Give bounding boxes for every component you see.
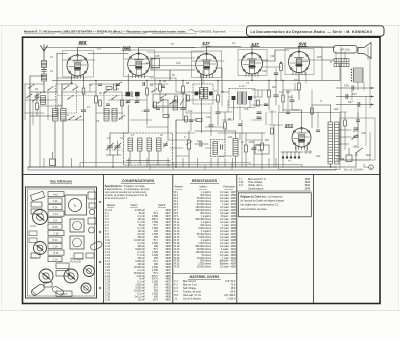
- cap C28: [98, 83, 102, 85]
- svg-text:Self: Self: [228, 136, 232, 139]
- tube V5 shield: [285, 49, 314, 75]
- dashed box frame-antenna: [56, 84, 77, 113]
- svg-text:C14: C14: [206, 116, 211, 119]
- heater row wire: [281, 151, 303, 153]
- tube V5 6V6: [289, 52, 310, 73]
- socket V6: [81, 283, 91, 293]
- resistor R16: [106, 87, 112, 90]
- cap C27: [345, 94, 347, 99]
- switch S1: [68, 119, 69, 120]
- svg-text:Valeur: Valeur: [130, 204, 137, 207]
- header faint marks: [230, 31, 244, 33]
- top small rect row: [30, 191, 44, 201]
- wire through V1: [63, 59, 95, 61]
- wire v 366: [365, 97, 367, 147]
- pilot lamp G: [369, 165, 374, 170]
- T1 core lines: [130, 92, 132, 97]
- T1 trimmer C6: [135, 100, 139, 102]
- cap C34: [264, 103, 268, 105]
- wire mesh vertical segments: [25, 47, 368, 167]
- svg-text:R 20: R 20: [53, 227, 59, 229]
- terminal wire 1: [336, 87, 374, 89]
- cap C20: [274, 94, 279, 96]
- svg-text:C10: C10: [176, 62, 181, 65]
- terminal dot 3: [371, 104, 373, 106]
- svg-text:6E8: 6E8: [79, 40, 87, 45]
- wire top V4-V5: [251, 47, 253, 54]
- tube V4 6J7: [242, 53, 263, 74]
- choke cap C18: [220, 145, 222, 150]
- wire B+ bus y80: [52, 80, 340, 82]
- electrolytic C44: [346, 155, 352, 162]
- IF can square 1: [70, 219, 84, 232]
- vertical divider condensateurs/resistances: [172, 175, 174, 304]
- right column rects: [88, 192, 96, 199]
- component value labels: [35, 55, 371, 158]
- svg-text:CV: CV: [107, 137, 111, 140]
- wire v 358: [357, 105, 359, 149]
- vertical divider right empty column: [313, 175, 315, 304]
- cap C15: [216, 111, 221, 113]
- bottom bus vertical links: [28, 163, 336, 171]
- wire T3 down: [233, 100, 235, 120]
- svg-text:C 14: C 14: [53, 259, 59, 261]
- switch S9: [111, 98, 112, 99]
- switch S10: [151, 91, 152, 92]
- svg-text:G: G: [370, 167, 372, 170]
- heater row marks: [282, 152, 300, 159]
- cap C12: [181, 107, 186, 109]
- IF transformer T2 box: [193, 84, 213, 104]
- svg-text:SECT.: SECT.: [60, 292, 68, 296]
- chassis socket slashes: [37, 214, 44, 220]
- svg-text:110 v.: 110 v.: [353, 131, 359, 133]
- svg-text:25 mF: 25 mF: [138, 299, 145, 302]
- coupling cap C17: [199, 142, 201, 147]
- svg-text:C 22: C 22: [53, 201, 59, 203]
- small rect bottom strip: [56, 263, 69, 269]
- resistor R7: [217, 95, 220, 102]
- resistances header dashes: [175, 188, 182, 190]
- vertical divider chassis/condensateurs: [103, 175, 105, 304]
- wire y120: [176, 119, 197, 121]
- tube V3 6Q7 shield: [192, 51, 222, 78]
- block coil L6: [138, 138, 143, 151]
- terminal dot 1: [371, 87, 373, 89]
- wire CV bottom: [106, 154, 121, 156]
- wire osc col2 down: [62, 121, 64, 167]
- T2 cap block right: [209, 92, 213, 96]
- switch S16: [157, 102, 158, 103]
- svg-text:C21: C21: [288, 96, 293, 99]
- svg-text:4 m.f.: 4 m.f.: [53, 194, 59, 196]
- svg-text:5Y3: 5Y3: [285, 123, 293, 128]
- coil L9: [173, 100, 178, 110]
- tuning block dashed box: [124, 133, 173, 165]
- wire V5 top to speaker: [298, 47, 300, 52]
- switch S13: [26, 97, 27, 98]
- wire left horizontal y76: [30, 75, 44, 77]
- wire top continuous bus y47.3: [45, 46, 335, 48]
- wire mains h: [336, 166, 356, 168]
- wire grid row left: [57, 53, 67, 55]
- resistor R23: [311, 108, 314, 114]
- socket V3: [39, 269, 53, 283]
- header brace: [189, 30, 199, 33]
- svg-text:de l'accord du Cadre est align: de l'accord du Cadre est alignée chaque: [241, 200, 285, 203]
- svg-text:C18: C18: [262, 70, 267, 73]
- cap C4: [35, 95, 40, 97]
- materiel divers rule: [173, 273, 237, 275]
- wire T3 right down: [249, 100, 251, 108]
- wire W1 top: [235, 131, 237, 139]
- switch S11: [160, 97, 161, 98]
- T3 primary ladder: [238, 92, 242, 104]
- svg-text:C 30: C 30: [105, 299, 111, 302]
- antenna cap C1: [42, 69, 47, 71]
- block trimmer C9: [164, 143, 168, 145]
- svg-text:J.L.: J.L.: [174, 297, 178, 300]
- wire right area y112: [340, 111, 347, 113]
- svg-text:R10: R10: [249, 141, 254, 144]
- resistor R15: [121, 100, 124, 106]
- wire ground bus y167: [28, 166, 336, 168]
- resistor R11: [261, 143, 264, 150]
- resistor R10: [245, 145, 248, 152]
- wire T1 sec down: [136, 96, 138, 99]
- wire right long vertical 2: [369, 56, 371, 108]
- svg-text:Int: Int: [355, 154, 358, 157]
- small box C8 trimmer: [151, 59, 160, 68]
- condensateurs rows: [105, 209, 172, 301]
- scan page edge left: [1, 26, 3, 311]
- power block outline: [279, 113, 340, 170]
- wire V4 to R29: [263, 66, 282, 68]
- switch S8: [103, 92, 104, 93]
- svg-text:2 m.f.: 2 m.f.: [53, 214, 59, 216]
- resistor R21: [257, 100, 260, 106]
- svg-text:C16: C16: [244, 108, 249, 111]
- terminal wire 3: [336, 104, 374, 106]
- svg-text:La Documentation du Dépanneur-: La Documentation du Dépanneur-Radio. — S…: [251, 30, 373, 34]
- condensateurs intro paragraph: [105, 185, 150, 200]
- wire osc col1 down: [54, 121, 56, 167]
- svg-text:C20: C20: [279, 91, 284, 94]
- socket V2: [34, 242, 47, 255]
- wire through V3: [192, 60, 224, 62]
- condensateurs header dashes: [107, 206, 114, 208]
- speaker field coil box AP: [334, 46, 358, 54]
- bottom return bus 2: [150, 164, 302, 166]
- speaker socket strip: [354, 68, 364, 82]
- svg-text:2e m.f.: 2e m.f.: [238, 85, 246, 88]
- wire top bus V1-V2: [88, 53, 128, 55]
- switch S14: [32, 100, 33, 101]
- cap C33: [238, 123, 242, 125]
- T1 trimmer C5: [126, 100, 130, 102]
- wire y116 left: [30, 115, 57, 117]
- svg-text:Repère: Repère: [175, 186, 184, 189]
- component strip stack: [48, 192, 64, 262]
- choke box T4: [211, 140, 226, 157]
- cap C24: [351, 86, 353, 91]
- resistor R27: [163, 115, 169, 118]
- header underline marks: [24, 33, 55, 35]
- resistor R13: [282, 95, 284, 102]
- oscillator coil box L11: [104, 109, 109, 122]
- terminal wire 2: [336, 96, 374, 98]
- wire antenna down: [43, 81, 45, 92]
- svg-text:4952: 4952: [165, 299, 171, 302]
- cap C38: [106, 103, 110, 105]
- tube V6 rectifier 5Y3: [292, 128, 311, 147]
- wire right bottom h: [336, 159, 370, 161]
- power transformer primary ladder: [328, 122, 333, 164]
- wire bus right drop: [339, 64, 341, 81]
- cap C32: [189, 119, 193, 121]
- svg-text:4902: 4902: [231, 266, 237, 269]
- resistor R12: [268, 90, 271, 97]
- wire y131 mid: [195, 130, 236, 132]
- IF can square 2: [70, 236, 84, 249]
- reglage note box: [238, 193, 311, 217]
- svg-text:C15: C15: [155, 55, 160, 58]
- wire mesh horizontal segments: [25, 58, 322, 156]
- resistor R18: [175, 96, 178, 102]
- svg-text:Condensateur.: Condensateur.: [248, 187, 264, 190]
- svg-text:PU: PU: [258, 149, 262, 153]
- tube V2 6K7 shield: [124, 50, 155, 77]
- scan page edge top: [0, 25, 400, 27]
- wire choke bottom: [330, 164, 332, 167]
- svg-text:Jeu de 6 lampes.: Jeu de 6 lampes.: [183, 297, 202, 300]
- svg-text:AP 10c: AP 10c: [339, 48, 350, 52]
- resistor R28: [187, 95, 190, 101]
- resistor R17: [154, 102, 157, 108]
- svg-text:RESISTANCES: RESISTANCES: [192, 179, 218, 183]
- materiel divers rows: [174, 280, 236, 300]
- cap C29: [116, 83, 120, 85]
- resistor R14: [298, 83, 301, 90]
- T2 secondary ladder: [204, 88, 208, 99]
- switch S6: [35, 95, 36, 96]
- wire mid y52: [147, 51, 204, 53]
- right output block outline: [340, 118, 375, 160]
- wire V1 grid down: [83, 77, 85, 89]
- terminal dot 2: [371, 96, 373, 98]
- switch S3 band: [63, 88, 64, 89]
- wire left horizontal y92: [30, 91, 57, 93]
- svg-text:R 24: R 24: [53, 207, 59, 209]
- wire choke top: [330, 105, 332, 122]
- right mini table rows: [239, 178, 311, 190]
- wire osc col3 down: [83, 123, 85, 167]
- tube V1 6E8: [67, 55, 88, 76]
- wire through V2: [124, 58, 156, 60]
- svg-text:6J7: 6J7: [202, 41, 210, 46]
- switch S18 arrow: [180, 99, 184, 105]
- bottom return bus 1: [80, 162, 250, 164]
- svg-text:R13: R13: [286, 91, 291, 94]
- coil L3 osc: [53, 109, 59, 122]
- screw marks right strip: [99, 201, 101, 203]
- cap C31: [161, 85, 165, 87]
- switch S20: [115, 85, 116, 86]
- capsule electrolytic E3: [52, 286, 65, 296]
- T3 cap block right: [248, 96, 252, 100]
- volume pot R9: [188, 140, 191, 149]
- block coil L7: [147, 138, 152, 151]
- svg-text:Vue inférieure: Vue inférieure: [50, 180, 73, 184]
- wire top V3-V4: [206, 47, 208, 54]
- svg-text:25 V: 25 V: [153, 299, 158, 302]
- IF transformer T1 secondary winding: [135, 92, 140, 97]
- wire T1 down: [127, 105, 129, 133]
- cap C36: [316, 129, 320, 131]
- wire mid col down: [167, 100, 169, 140]
- cap C30: [142, 82, 144, 86]
- svg-text:C47: C47: [348, 101, 353, 104]
- svg-text:6M8: 6M8: [122, 46, 131, 51]
- tube V2 6K7: [128, 53, 150, 75]
- svg-text:C19: C19: [256, 144, 261, 147]
- wire mid y70: [150, 69, 195, 71]
- resistor R3: [36, 103, 39, 110]
- svg-text:4 v.: 4 v.: [288, 160, 292, 163]
- resistor R8: [224, 122, 227, 129]
- svg-text:Valeur: Valeur: [199, 186, 206, 189]
- svg-text:C23: C23: [336, 155, 341, 158]
- IF transformer T1 primary winding: [126, 92, 131, 97]
- svg-text:Réglage du Cadre sec : La fréq: Réglage du Cadre sec : La fréquence: [241, 195, 284, 198]
- chassis outline box: [26, 187, 97, 298]
- variable capacitor CV2: [115, 145, 121, 147]
- cap C16: [209, 124, 214, 126]
- socket V5: [84, 266, 95, 277]
- svg-text:et de service pour T.: et de service pour T.: [105, 197, 128, 200]
- resistor R25: [99, 100, 102, 106]
- horizontal divider schematic/tables: [23, 174, 381, 176]
- scan page edge right: [398, 26, 400, 311]
- wire right col y110: [283, 109, 299, 111]
- wire block feed: [109, 133, 111, 141]
- power transformer secondary ladder: [335, 122, 340, 164]
- speaker cone: [358, 43, 371, 59]
- wire through V4: [239, 59, 268, 61]
- antenna coil L2: [42, 74, 47, 81]
- T3 cap block left: [232, 96, 236, 100]
- svg-text:CV: CV: [120, 137, 124, 140]
- bottom return bus 3 (full ground double): [28, 169, 336, 171]
- wire T2 down: [201, 99, 203, 134]
- resistor R20: [196, 119, 202, 122]
- wire right v to plug: [369, 132, 371, 160]
- cap C43: [354, 135, 359, 137]
- transformer Tr circle: [69, 199, 82, 212]
- svg-text:Self: Self: [334, 108, 338, 111]
- right mini table rule: [237, 190, 312, 192]
- wire V3 down to T2: [201, 75, 203, 88]
- resistor R29 interstage: [280, 64, 283, 71]
- cap C35: [286, 111, 290, 113]
- tube V3 6Q7: [196, 54, 218, 76]
- wire lamp: [363, 164, 365, 167]
- tube V1 6E8 shield: [63, 51, 94, 78]
- terminal circles: [305, 151, 307, 153]
- wire V6 pins down: [295, 147, 297, 152]
- switch S17: [169, 103, 170, 104]
- svg-text:C.V.: C.V.: [239, 184, 244, 187]
- PT tap switch: [351, 138, 352, 139]
- T2 cap block left: [195, 92, 199, 96]
- cap C37: [356, 119, 360, 121]
- resistances rows: [174, 191, 236, 269]
- electrolytic C3: [50, 159, 56, 166]
- svg-text:situé à l'arrière du poste.: situé à l'arrière du poste.: [241, 208, 268, 211]
- svg-text:CHASSIS, Argenteuil.: CHASSIS, Argenteuil.: [199, 29, 226, 33]
- svg-text:PU ou CB: PU ou CB: [70, 261, 81, 264]
- switch gang dashed link 2: [106, 149, 123, 151]
- resistor R24: [344, 120, 347, 126]
- svg-text:Repère: Repère: [107, 204, 116, 207]
- capsule electrolytic E2: [90, 241, 103, 252]
- socket pins: [351, 69, 352, 70]
- svg-text:R 16: R 16: [54, 253, 60, 255]
- switch S5: [28, 87, 29, 88]
- cap C42: [354, 127, 359, 129]
- block coil L5: [128, 138, 133, 151]
- block bottom bus: [126, 160, 170, 162]
- transformer Tr box: [65, 195, 87, 215]
- output transformer OT: [334, 59, 349, 62]
- wire top V1 plate: [77, 48, 79, 56]
- switch gang dashed link 1: [58, 95, 128, 97]
- switch S2: [75, 119, 76, 120]
- wire V3 plate to T3: [216, 67, 223, 69]
- switch S12: [67, 98, 68, 99]
- mains switch SW: [355, 152, 356, 153]
- svg-text:245 v.: 245 v.: [352, 146, 359, 149]
- block wires down: [129, 151, 131, 160]
- block coil L8: [157, 138, 162, 151]
- resistor R19: [185, 116, 188, 122]
- socket V1: [33, 210, 48, 225]
- switch box S15: [153, 94, 186, 108]
- outer frame border: [23, 37, 381, 303]
- svg-text:3948: 3948: [305, 187, 311, 190]
- wire v 242: [241, 120, 243, 167]
- wire V1 cathode down: [71, 77, 73, 85]
- antenna coil L1: [42, 61, 47, 68]
- svg-text:C22: C22: [316, 155, 321, 158]
- wire V2 cathode to T1: [127, 74, 129, 92]
- choke winding: [213, 142, 218, 155]
- oscillator coil box L12: [112, 109, 117, 122]
- cap stack C41: [257, 111, 262, 113]
- T2 primary ladder: [200, 88, 204, 99]
- bottom label box: [56, 291, 72, 297]
- svg-text:25.000 ohms: 25.000 ohms: [197, 266, 212, 269]
- cap C7: [145, 109, 150, 111]
- cap C45: [274, 72, 278, 74]
- switch S19: [119, 118, 120, 119]
- svg-text:fois réglée par le condensateu: fois réglée par le condensateur C2,: [241, 204, 279, 207]
- cap C19: [252, 147, 257, 149]
- svg-text:1.260 fr.: 1.260 fr.: [227, 297, 236, 300]
- socket V4: [64, 269, 78, 283]
- resistor R4: [146, 88, 149, 95]
- svg-text:Puissance: Puissance: [223, 186, 235, 189]
